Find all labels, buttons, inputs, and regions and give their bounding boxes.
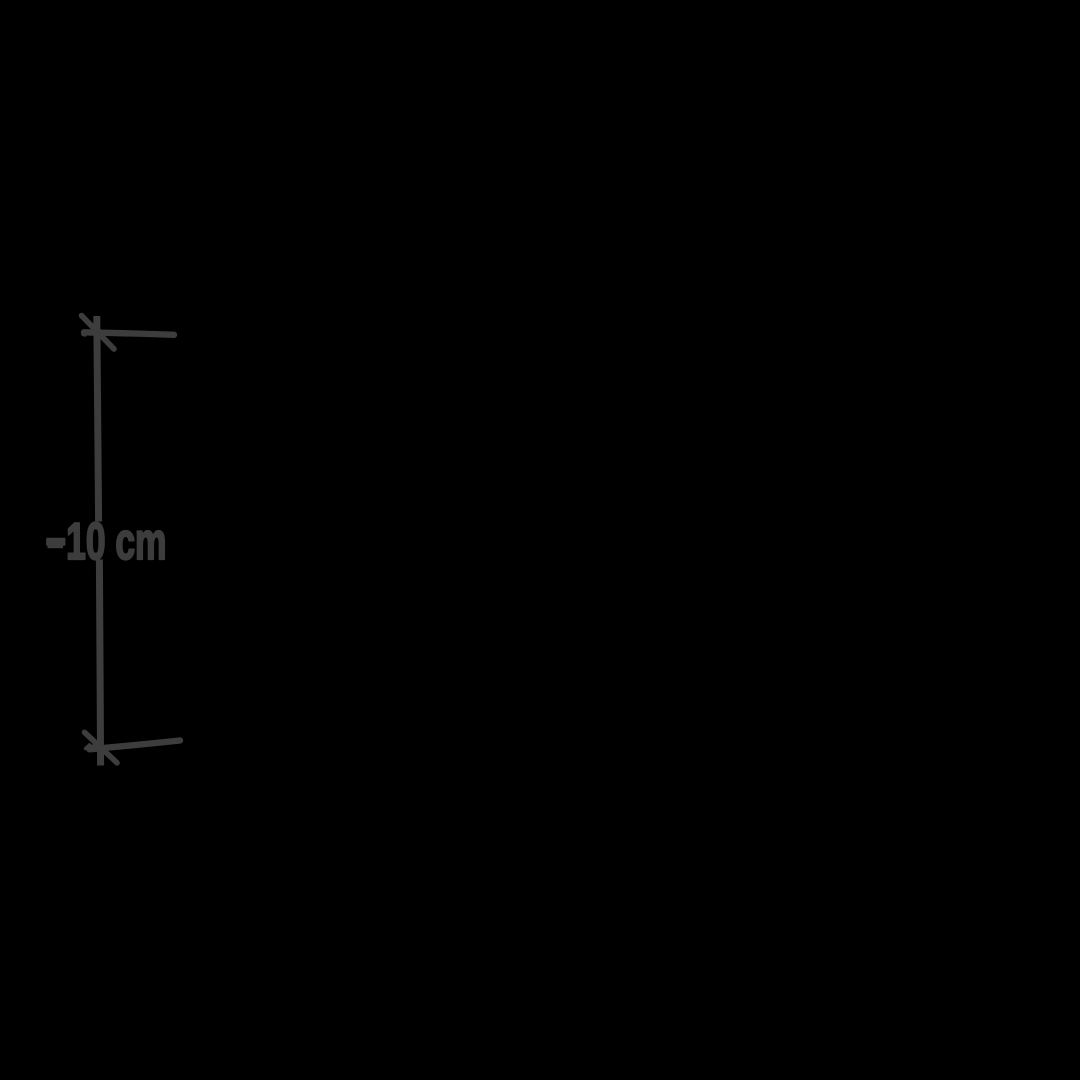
label minus dash overlay bbox=[48, 540, 64, 548]
bottom tick cross stroke bbox=[85, 732, 118, 763]
bottom extension line start squiggle bbox=[86, 744, 94, 751]
bottom extension line bbox=[90, 741, 181, 750]
svg-text:−10 cm: −10 cm bbox=[46, 513, 167, 571]
wire: vertical dimension line lower segment bbox=[99, 560, 100, 766]
top extension line bbox=[84, 332, 174, 335]
top extension line start squiggle bbox=[83, 331, 88, 336]
wire: vertical dimension line upper segment bbox=[97, 316, 99, 522]
top tick cross stroke bbox=[82, 316, 115, 350]
